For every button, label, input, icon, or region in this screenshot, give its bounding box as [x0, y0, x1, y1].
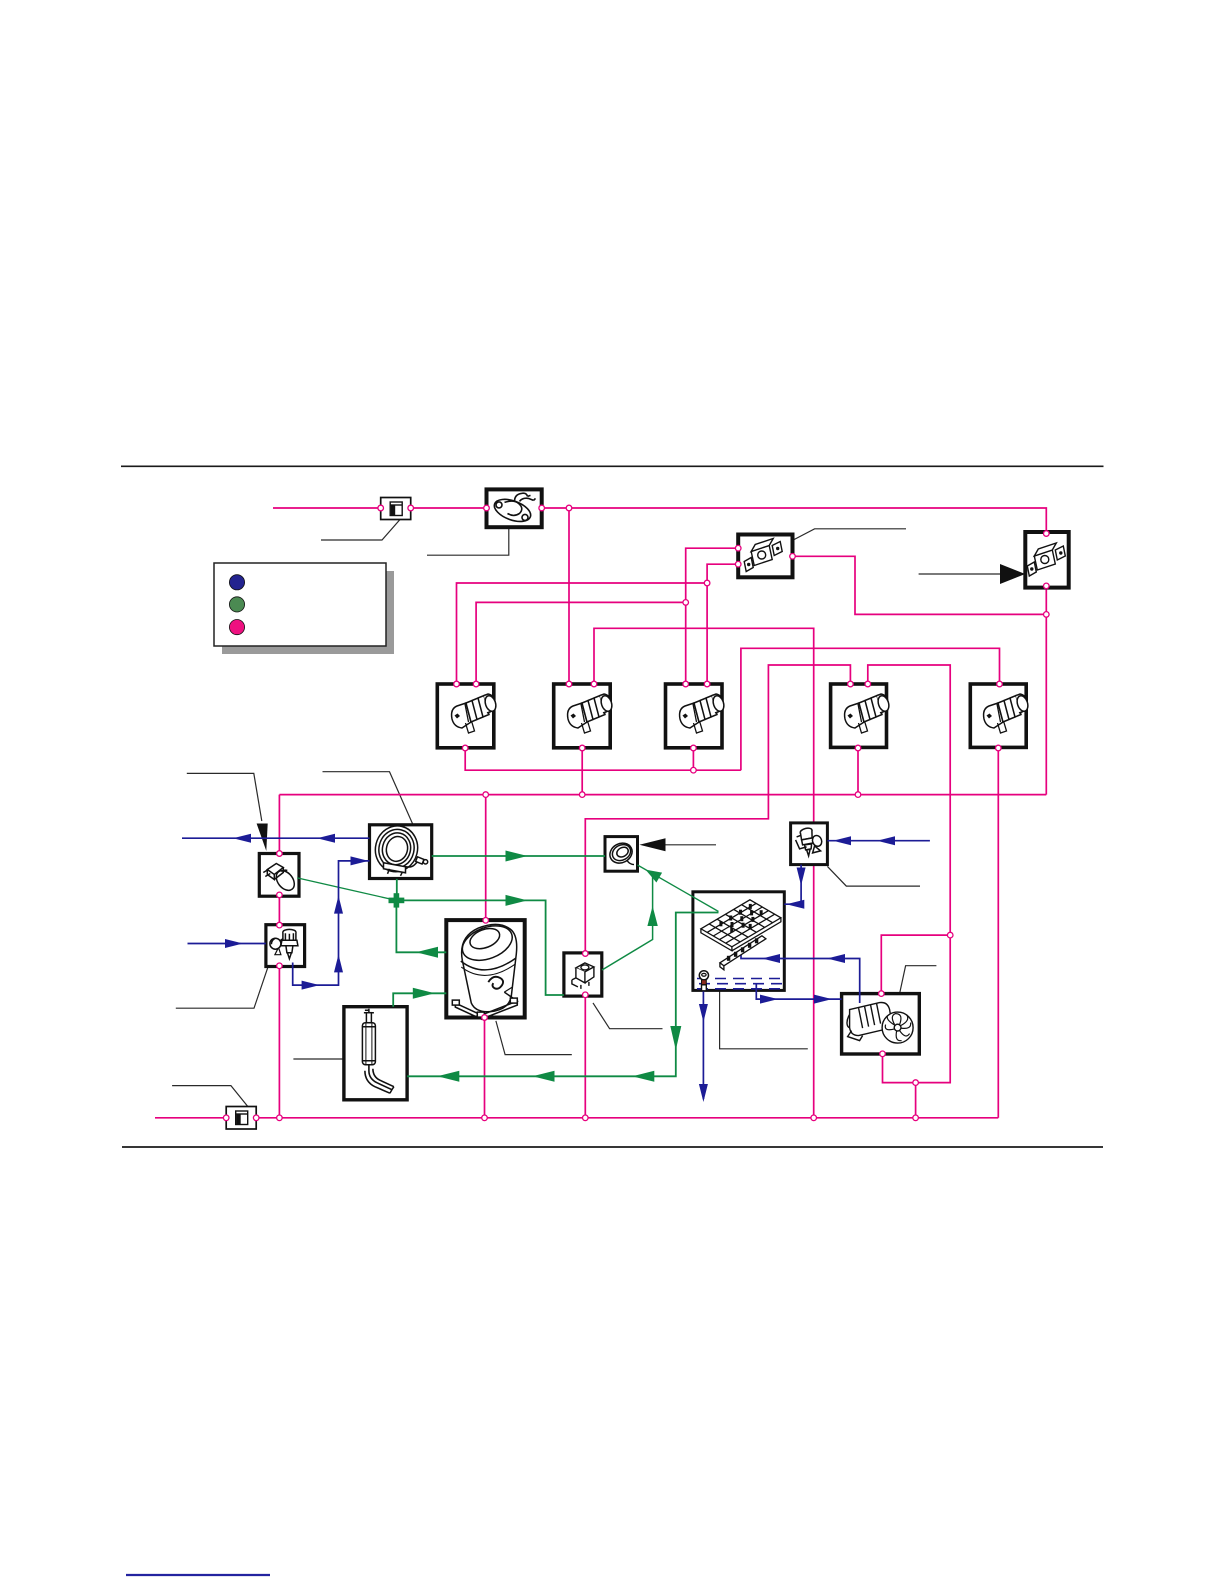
condenser coil box: [370, 825, 432, 879]
callout arrow into power cord box: [257, 824, 268, 852]
solenoid S2 icon: [568, 694, 614, 733]
callout leader fan motor: [900, 966, 937, 993]
green arrow down evaporator outlet: [670, 1026, 681, 1050]
control relay icon: [572, 963, 594, 989]
wire fan pressure control left pin2 to solenoid S3 pin2: [707, 564, 738, 684]
callout leader control relay: [593, 1003, 663, 1029]
solenoid S3 icon: [680, 694, 726, 733]
callout leader drier: [293, 1058, 344, 1060]
callout leader fuse F1: [321, 520, 400, 541]
drain line from evaporator: [702, 991, 704, 1099]
expansion valve icon: [796, 827, 824, 856]
power line into expansion valve: [827, 840, 930, 842]
high pressure cutout pins: [1044, 531, 1050, 537]
wire bus1 left of fuse F2: [155, 1117, 226, 1119]
wire solenoid S4 pin2 to fan motor branch: [868, 665, 950, 1083]
callout leader water valve: [176, 967, 268, 1008]
power cord icon: [263, 864, 298, 894]
green arrow coil to ring: [506, 851, 528, 862]
high pressure cutout box: [1025, 532, 1068, 588]
wire bus1 right of fuse F2: [256, 1117, 998, 1119]
solenoid S1 icon: [452, 694, 498, 733]
junction S3 drop: [691, 767, 697, 773]
condenser coil icon: [371, 821, 428, 876]
solenoid S2 box: [554, 684, 611, 748]
wire solenoid S1 pin2 branch: [476, 602, 686, 684]
callout leader evaporator: [720, 991, 808, 1049]
heat exchanger ring icon: [606, 839, 635, 867]
water level dashes 2: [699, 983, 783, 985]
callout leader condenser coil: [323, 772, 414, 825]
line expansion valve down into evaporator: [784, 865, 801, 905]
power cord box: [259, 854, 299, 897]
green arrow suction run 2: [533, 1071, 555, 1082]
power line into condenser area: [182, 837, 370, 839]
callout arrow into heat exchanger: [639, 838, 665, 851]
navy arrow left on top power line 1: [233, 834, 251, 843]
navy arrow down from expansion valve: [797, 868, 806, 886]
wire high pressure cutout out, down right side: [1045, 586, 1047, 795]
navy arrow water line 1: [760, 995, 778, 1004]
compressor box: [446, 920, 524, 1017]
navy arrow into coil: [351, 856, 369, 865]
bus2 junctions: [483, 792, 489, 798]
callout leader fuse F2: [172, 1086, 248, 1107]
control relay box: [564, 953, 602, 996]
green junction cross: [389, 893, 405, 907]
navy arrow into water valve: [225, 939, 243, 948]
fan motor icon: [844, 1002, 913, 1043]
solenoid S1 box: [437, 684, 494, 748]
water valve pins: [277, 922, 283, 928]
legend dot blue: [229, 575, 244, 590]
water level dashes 1: [697, 978, 783, 980]
fuse F2 box: [226, 1107, 256, 1130]
callout leader expansion valve: [827, 866, 920, 886]
fuse F2 pins: [223, 1115, 229, 1121]
capillary from power cord box to junction: [297, 878, 396, 901]
navy arrow spray line 2: [827, 954, 845, 963]
solenoid S4 box: [831, 684, 887, 747]
power cord pins: [277, 851, 283, 857]
line evaporator water to fan motor: [756, 984, 841, 999]
navy arrow into expansion valve 2: [877, 836, 895, 845]
line evaporator spray bar to fan motor: [741, 951, 860, 1003]
navy arrow on valve-coil run right: [302, 981, 320, 990]
drier icon: [362, 1009, 394, 1093]
control relay pins: [583, 951, 589, 957]
wire control relay bottom to bus1: [584, 995, 586, 1118]
power line water valve to condenser coil: [293, 861, 370, 985]
navy arrow spray line 1: [762, 954, 780, 963]
wire solenoid S1 pin1 branch: [457, 583, 708, 684]
line coil bottom to junction: [396, 879, 398, 894]
callout leader heat exchanger: [666, 844, 717, 846]
fan pressure control pins: [735, 545, 741, 551]
refrigerant line coil to heat exchanger: [432, 855, 605, 857]
navy arrow water line 2: [814, 995, 832, 1004]
green arrow suction run 3: [437, 1071, 459, 1082]
wire fan motor top pin branch: [881, 935, 950, 994]
navy arrow into evaporator right: [786, 900, 804, 909]
green arrow on diagonal toward ring: [646, 870, 663, 883]
hyperlink underline bottom left: [126, 1574, 270, 1576]
wire L1 feed to fuse F1: [273, 507, 381, 509]
callout leader compressor: [496, 1021, 572, 1055]
pressure switch icon (fan pressure control): [744, 539, 782, 572]
pressure switch icon (high pressure cutout): [1027, 543, 1065, 576]
callout leader bin thermostat: [427, 527, 509, 555]
bus1 junctions: [277, 1115, 283, 1121]
water valve icon: [270, 929, 298, 958]
fuse F1 icon: [390, 502, 402, 516]
solenoid S4 icon: [845, 694, 891, 733]
callout leader high pressure cutout: [919, 573, 1000, 575]
callout arrow into high pressure cutout: [1000, 564, 1025, 584]
navy arrow drain mid: [699, 1004, 708, 1022]
bin thermostat box: [487, 489, 542, 527]
water level dashes 3: [697, 988, 783, 990]
green arrow up on bulb line: [647, 906, 657, 926]
evaporator box: [693, 892, 784, 991]
expansion valve box: [791, 823, 828, 865]
legend box: [214, 563, 386, 646]
wire bus2 left corner down through power cord and water valve: [278, 795, 280, 1118]
solenoid S5 icon: [984, 694, 1030, 733]
callout leader power cord: [187, 773, 262, 821]
wire bus2 horizontal: [279, 794, 1046, 796]
wire solenoid S3 bottom pin drop: [692, 748, 694, 770]
line evaporator outlet to drier: [407, 913, 718, 1077]
fuse F2 icon: [236, 1111, 248, 1125]
green arrow suction run 1: [632, 1071, 654, 1082]
wire fan pressure control left pin1 to solenoid S3 pin1: [686, 548, 739, 684]
navy arrow on valve-coil run up 2: [334, 896, 343, 914]
wire fuse F1 to bin thermostat: [411, 507, 487, 509]
compressor icon: [452, 919, 517, 1019]
fan pressure control box: [738, 535, 792, 578]
green arrow to control relay branch: [506, 895, 528, 906]
wire fan branch down to bus1: [915, 1083, 917, 1118]
solenoid S5 box: [970, 684, 1026, 747]
wire bin thermostat to high pressure cutout: [542, 508, 1047, 534]
line junction down to compressor discharge: [396, 907, 446, 953]
legend dot green: [229, 597, 244, 612]
green arrow compressor discharge: [416, 947, 438, 958]
solenoid top pins: [454, 681, 460, 687]
fuse F1 box: [381, 498, 411, 520]
navy arrow on valve-coil run up 1: [334, 954, 343, 972]
line control relay bulb to diagonal: [602, 874, 653, 971]
legend box shadow: [222, 571, 394, 654]
wire solenoid S4 bottom pin to bus2: [857, 748, 859, 795]
fan motor box: [842, 994, 920, 1054]
heat exchanger ring box: [605, 837, 638, 872]
top rule: [121, 465, 1104, 467]
wire node L1 down to solenoid S2 pin1: [568, 508, 570, 684]
branch junctions: [704, 580, 710, 586]
line drier to compressor suction: [393, 993, 446, 1006]
wire bus2 to compressor top pin: [485, 795, 487, 921]
power line into water valve: [188, 943, 266, 945]
solenoid bottom pins: [462, 745, 468, 751]
water valve box: [266, 925, 305, 967]
line heat exchanger to evaporator diagonal: [638, 865, 719, 912]
evaporator plate icon: [699, 900, 781, 991]
callout leader fan pressure control: [793, 529, 907, 541]
legend dot pink: [229, 620, 244, 635]
green arrow into compressor suction: [413, 988, 435, 999]
wire compressor bottom pin to bus1: [484, 1018, 486, 1118]
compressor pins: [483, 918, 489, 924]
wire control relay feed via solenoid S4 pin1: [585, 665, 850, 954]
wire solenoid S2 bottom pin to bus2: [581, 748, 583, 795]
wire solenoid S2 pin2 down right side to bus1: [594, 628, 814, 1118]
navy arrow drain end: [699, 1084, 708, 1102]
wire solenoid S5 top feed: [741, 648, 1000, 770]
line junction to control relay: [404, 900, 564, 995]
junction circles on L1 wire: [378, 505, 384, 511]
navy arrow into expansion valve 1: [833, 836, 851, 845]
wire solenoid S5 bottom pin down to bus1: [997, 748, 999, 1118]
drier box: [344, 1007, 407, 1100]
bin thermostat icon: [491, 493, 535, 526]
wire solenoid S1 bottom to S5 feed corner: [465, 748, 741, 770]
solenoid S3 box: [666, 684, 723, 748]
wire fan pressure control output to junction: [793, 556, 1047, 614]
fan motor pins: [947, 932, 953, 938]
navy arrow left on top power line 2: [317, 834, 335, 843]
bottom rule: [122, 1146, 1103, 1148]
